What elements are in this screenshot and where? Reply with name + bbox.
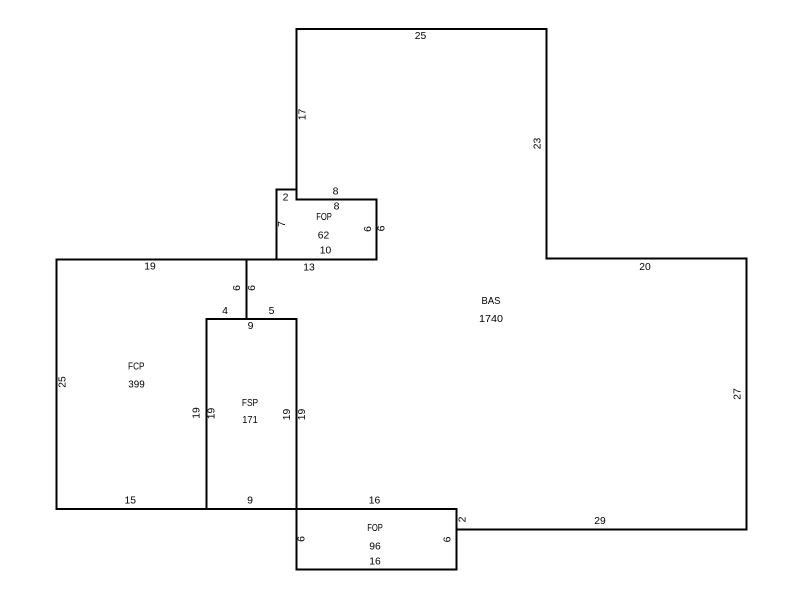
svg-text:8: 8 (333, 186, 339, 198)
wall: FSP right edge (19 ft) (296, 318, 298, 510)
svg-text:FOP: FOP (316, 211, 332, 223)
svg-text:19: 19 (296, 409, 308, 421)
svg-text:16: 16 (369, 495, 381, 507)
wall: FOP bottom-area left edge (6 ft) (296, 508, 298, 571)
svg-text:4: 4 (222, 305, 228, 317)
wall: 6 ft connector wall (246, 259, 248, 321)
svg-text:171: 171 (242, 414, 258, 426)
svg-text:6: 6 (442, 536, 454, 542)
wall: FSP left edge (19 ft) (206, 318, 208, 510)
wall: long bottom edge of FCP/FSP/BAS (15+9+16 ft) (56, 508, 458, 510)
svg-text:1740: 1740 (479, 313, 503, 325)
svg-text:6: 6 (246, 285, 258, 291)
svg-text:16: 16 (369, 556, 381, 568)
wall: FOP bottom-area right edge / BAS 2 ft jog (456, 508, 458, 571)
wall: BAS upper right edge (23 ft) (546, 28, 548, 260)
svg-text:2: 2 (283, 192, 289, 204)
wall: BAS bottom edge (29 ft) (456, 529, 748, 531)
svg-text:96: 96 (369, 541, 381, 553)
svg-text:6: 6 (231, 285, 243, 291)
wall: FOP right edge (6 ft) (376, 199, 378, 261)
svg-text:6: 6 (362, 226, 374, 232)
wall: BAS top edge (25 ft) (296, 28, 548, 30)
svg-text:FSP: FSP (242, 397, 258, 409)
svg-text:399: 399 (128, 379, 145, 391)
svg-text:23: 23 (532, 138, 544, 150)
wall: FCP left edge (25 ft) (56, 259, 58, 511)
svg-text:2: 2 (457, 516, 469, 522)
wall: step vertical (7 ft) (276, 189, 278, 261)
svg-text:6: 6 (296, 536, 308, 542)
svg-text:19: 19 (191, 407, 203, 419)
wall: upper horizontal edge FCP/FOP (19+13 ft) (56, 259, 378, 261)
svg-text:20: 20 (639, 261, 651, 273)
svg-text:FCP: FCP (128, 361, 145, 373)
svg-text:29: 29 (594, 515, 606, 527)
svg-text:FOP: FOP (367, 522, 383, 534)
wall: BAS middle step edge (20 ft) (546, 258, 748, 260)
svg-text:25: 25 (415, 30, 427, 42)
wall: step horizontal (2 ft) (276, 189, 298, 191)
svg-text:19: 19 (144, 261, 156, 273)
svg-text:25: 25 (57, 376, 69, 388)
svg-text:7: 7 (276, 221, 288, 227)
wall: BAS upper left edge (17 ft) (296, 28, 298, 201)
svg-text:9: 9 (248, 320, 254, 332)
svg-text:19: 19 (206, 408, 218, 420)
svg-text:15: 15 (125, 495, 137, 507)
svg-text:8: 8 (334, 201, 340, 213)
svg-text:BAS: BAS (482, 295, 501, 307)
svg-text:19: 19 (281, 409, 293, 421)
wall: BAS right edge (27 ft) (746, 258, 748, 531)
svg-text:62: 62 (318, 230, 330, 242)
svg-text:17: 17 (297, 109, 309, 121)
wall: FOP top edge (8 ft) (296, 199, 378, 201)
svg-text:6: 6 (376, 225, 388, 231)
svg-text:9: 9 (247, 495, 253, 507)
wall: FSP top edge (9 ft) (206, 318, 298, 320)
svg-text:27: 27 (732, 388, 744, 400)
svg-text:5: 5 (269, 305, 275, 317)
svg-text:10: 10 (320, 245, 332, 257)
wall: FOP bottom-area bottom edge (16 ft) (296, 569, 458, 571)
svg-text:13: 13 (303, 262, 315, 274)
